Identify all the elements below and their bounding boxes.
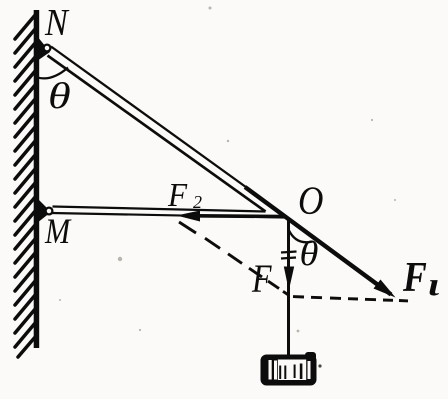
svg-text:F: F [167,177,188,214]
svg-text:ι: ι [428,267,439,303]
svg-text:θ: θ [48,76,71,117]
svg-text:F: F [402,254,427,300]
svg-text:O: O [298,179,323,224]
svg-text:2: 2 [193,192,202,212]
svg-text:F: F [251,257,272,301]
svg-text:θ: θ [300,234,319,273]
svg-text:M: M [44,212,72,252]
svg-text:N: N [44,1,70,43]
